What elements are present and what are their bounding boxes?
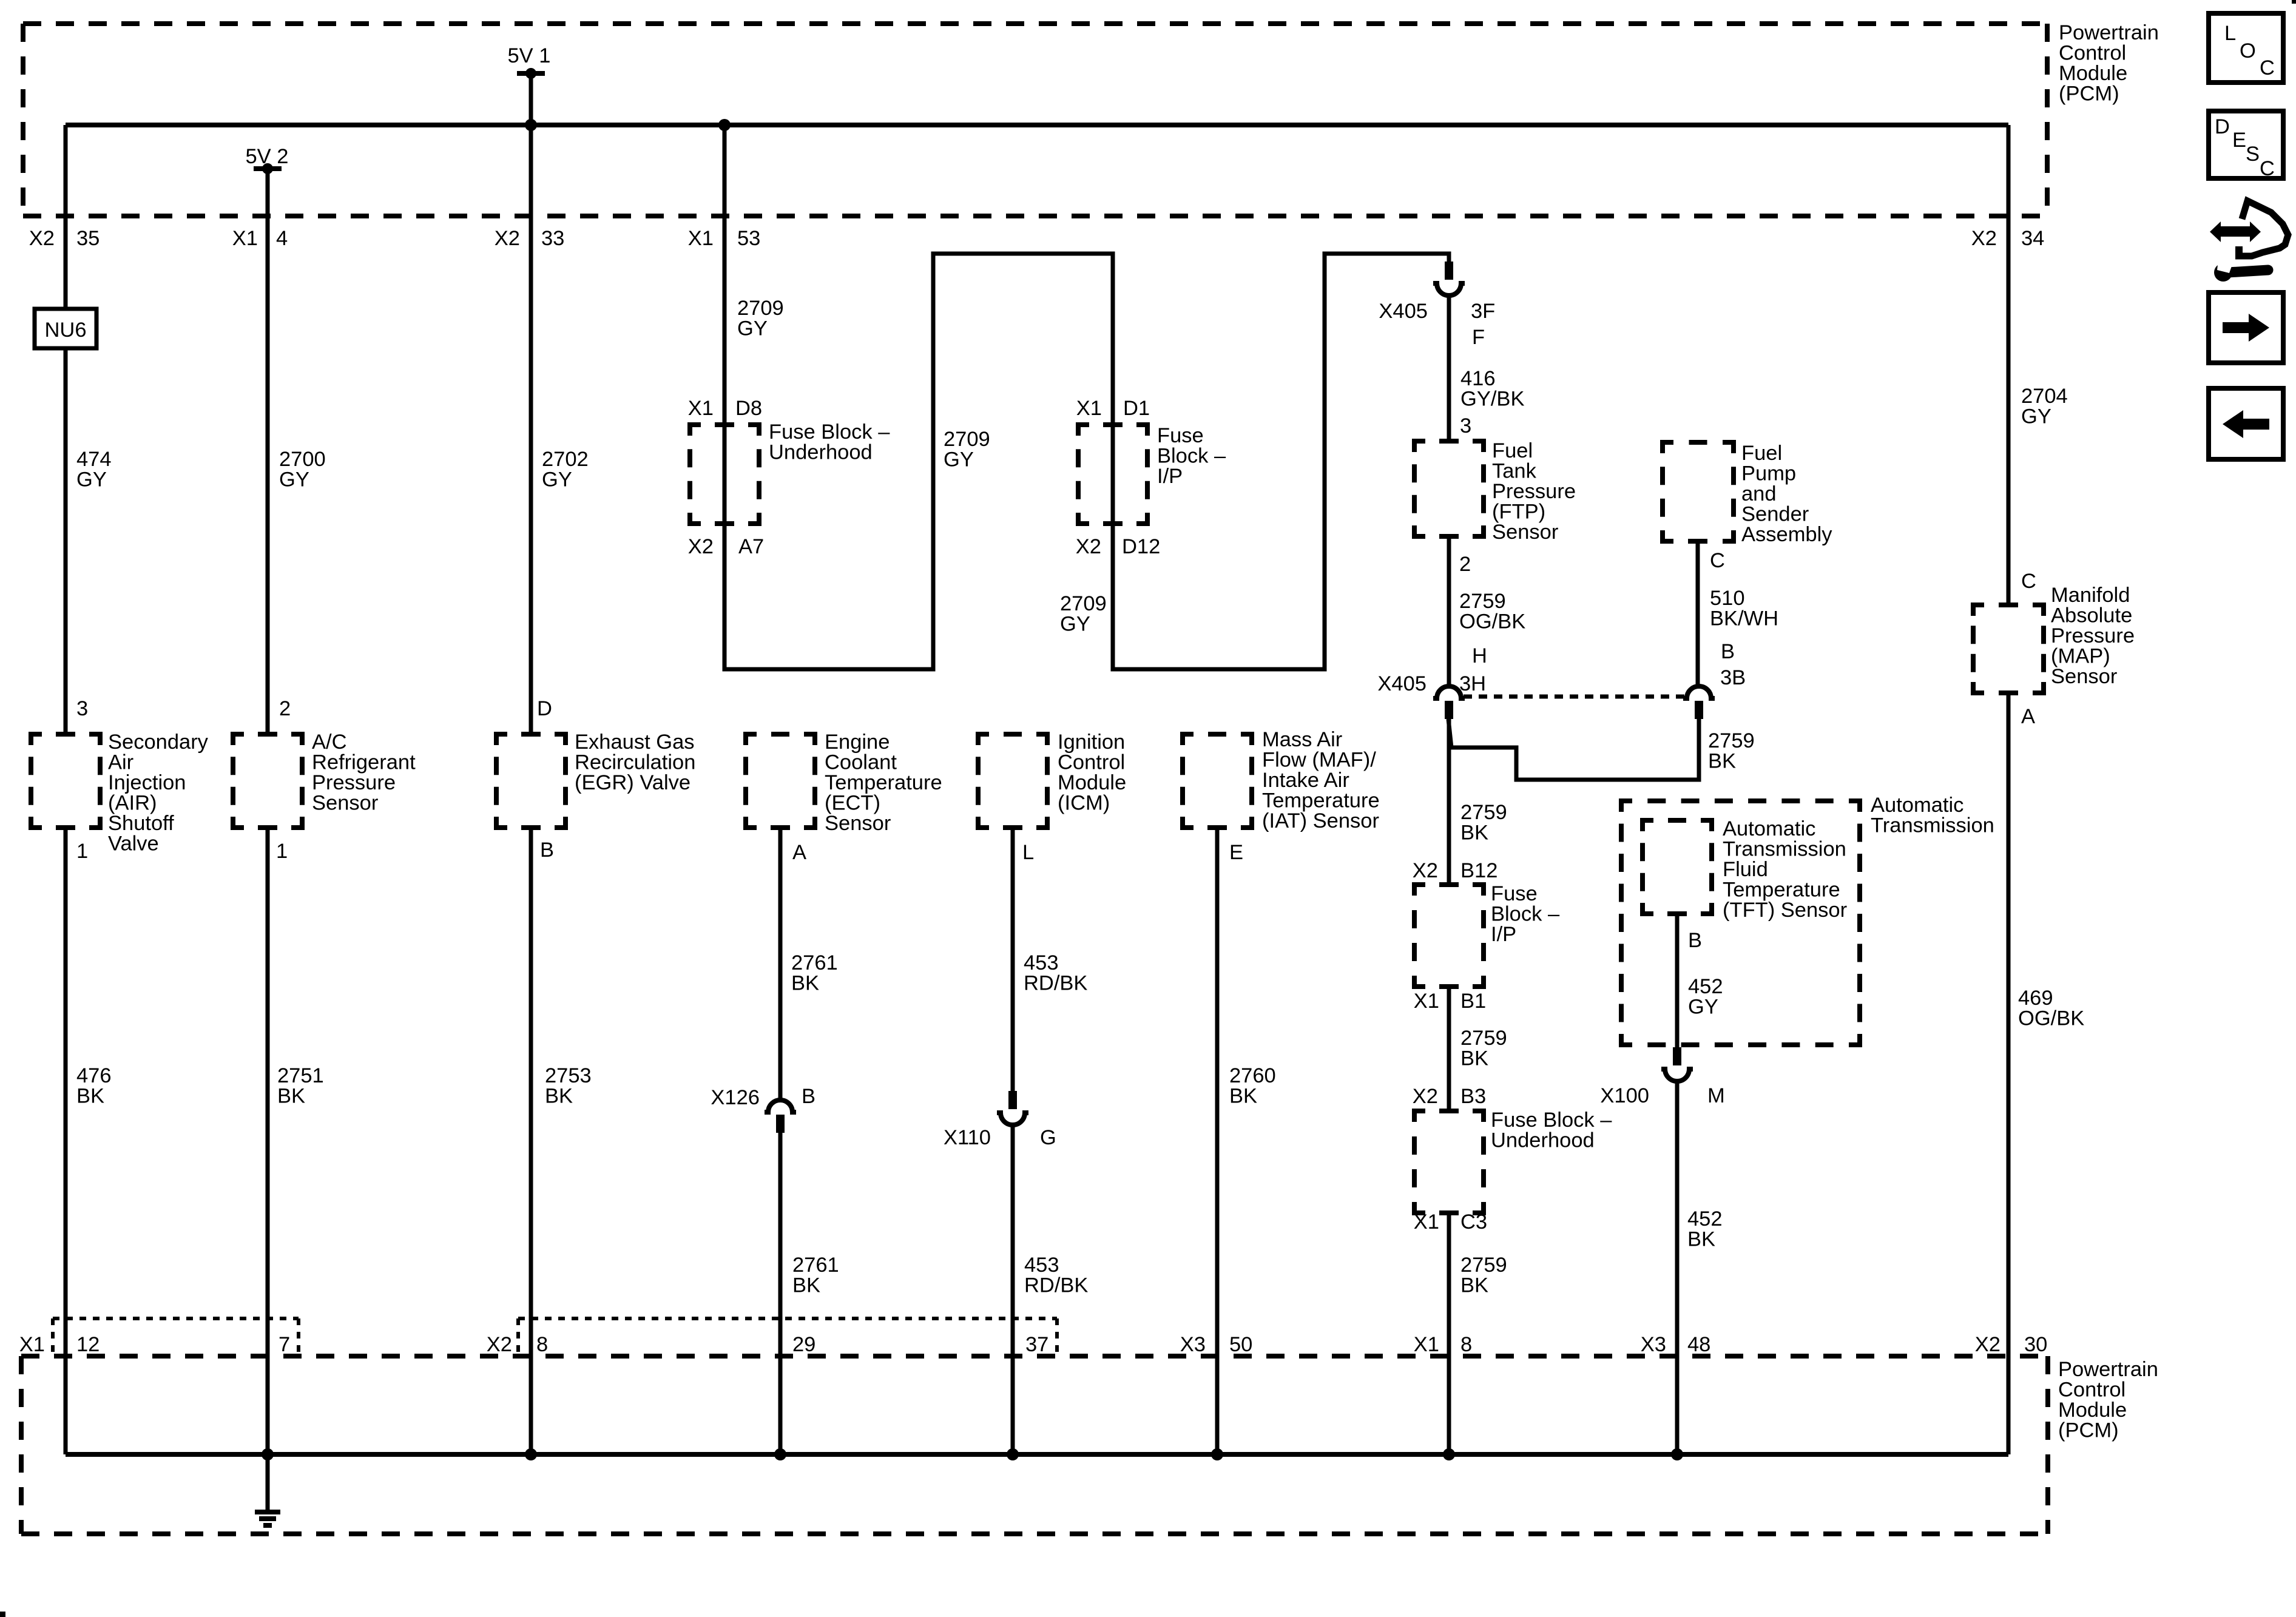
- svg-text:2753: 2753: [545, 1064, 592, 1087]
- value label: 2709 GY (below pin 53): [737, 297, 784, 340]
- svg-text:37: 37: [1025, 1333, 1048, 1356]
- label: Engine Coolant Temperature (ECT) Sensor: [825, 731, 942, 835]
- svg-text:Pressure: Pressure: [2051, 624, 2135, 647]
- svg-text:2709: 2709: [944, 428, 990, 451]
- svg-text:34: 34: [2021, 227, 2044, 250]
- svg-text:Pressure: Pressure: [312, 771, 396, 794]
- svg-text:Temperature: Temperature: [825, 771, 942, 794]
- svg-text:BK: BK: [1460, 1274, 1488, 1297]
- pin label: Fuse Block I/P X2-B12: [1413, 859, 1498, 882]
- pin label: PCM X1 pin 4: [232, 227, 288, 250]
- svg-text:469: 469: [2018, 987, 2053, 1010]
- svg-text:5V 1: 5V 1: [508, 44, 551, 67]
- wire 452 GY: TFT sensor to connector X100: [1675, 914, 1680, 1047]
- svg-text:Shutoff: Shutoff: [108, 812, 174, 835]
- label: Ignition Control Module (ICM): [1058, 731, 1126, 815]
- module box: Powertrain Control Module (PCM) bottom: [21, 1356, 2048, 1534]
- junction: 5V1 feed to bus: [525, 119, 537, 131]
- value label: 476 BK: [76, 1064, 112, 1108]
- svg-text:D12: D12: [1122, 535, 1160, 558]
- label: Exhaust Gas Recirculation (EGR) Valve: [575, 731, 695, 794]
- svg-text:D8: D8: [735, 397, 762, 420]
- svg-text:4: 4: [276, 227, 288, 250]
- label: Fuse Block - I/P (middle): [1491, 882, 1560, 946]
- svg-text:O: O: [2240, 39, 2256, 62]
- pin label: PCM X1 pin 8: [1414, 1333, 1472, 1356]
- component box: Fuse Block - I/P (middle): [1414, 885, 1484, 987]
- icon: arrow right box: [2209, 292, 2283, 363]
- svg-text:(ECT): (ECT): [825, 792, 880, 815]
- label: A/C Refrigerant Pressure Sensor: [312, 731, 416, 815]
- svg-text:B: B: [540, 839, 554, 862]
- svg-text:X110: X110: [944, 1126, 991, 1149]
- svg-text:Sensor: Sensor: [2051, 665, 2117, 688]
- label: Fuel Tank Pressure (FTP) Sensor: [1492, 439, 1576, 544]
- power symbol 5V 1: [517, 68, 545, 79]
- svg-text:Control: Control: [2058, 1379, 2125, 1402]
- svg-text:I/P: I/P: [1491, 923, 1516, 946]
- svg-text:1: 1: [276, 840, 288, 863]
- connector X405 shell (dashed link 3H to 3B): [1464, 695, 1684, 699]
- value label: 453 RD/BK (upper): [1024, 951, 1087, 995]
- svg-text:GY: GY: [2021, 405, 2051, 428]
- value label: 474 GY: [76, 448, 112, 491]
- wire 2759 BK: jumper X405-3H to X405-3B: [1448, 719, 1699, 780]
- svg-text:2759: 2759: [1459, 590, 1506, 613]
- svg-text:(ICM): (ICM): [1058, 792, 1110, 815]
- svg-text:35: 35: [76, 227, 100, 250]
- svg-text:Fuse Block –: Fuse Block –: [769, 420, 890, 444]
- svg-text:GY: GY: [542, 468, 572, 491]
- pin label: Fuse Block I/P X1-D1: [1076, 397, 1150, 420]
- svg-text:RD/BK: RD/BK: [1024, 1274, 1088, 1297]
- svg-text:X3: X3: [1180, 1333, 1206, 1356]
- svg-text:and: and: [1741, 482, 1777, 505]
- svg-text:RD/BK: RD/BK: [1024, 972, 1087, 995]
- pin label: PCM X2 pin 33: [495, 227, 565, 250]
- svg-text:30: 30: [2024, 1333, 2047, 1356]
- artifact: page mark bottom-left: [0, 1612, 5, 1617]
- svg-text:Module: Module: [2059, 62, 2127, 85]
- svg-text:Block –: Block –: [1157, 445, 1226, 468]
- svg-text:Fuse Block –: Fuse Block –: [1491, 1109, 1612, 1132]
- wire 2753 BK: EGR valve to ground bus: [529, 828, 533, 1454]
- svg-text:Control: Control: [2059, 42, 2126, 65]
- svg-text:1: 1: [76, 840, 88, 863]
- wire 2751 BK: A/C sensor to ground bus: [266, 828, 270, 1454]
- svg-text:B3: B3: [1460, 1085, 1486, 1108]
- svg-text:X2: X2: [487, 1333, 512, 1356]
- svg-text:BK: BK: [1229, 1085, 1257, 1108]
- svg-text:B: B: [802, 1085, 815, 1108]
- svg-text:2751: 2751: [277, 1064, 324, 1087]
- svg-text:X1: X1: [688, 227, 714, 250]
- svg-text:8: 8: [1460, 1333, 1472, 1356]
- svg-text:X1: X1: [232, 227, 258, 250]
- value label: 453 RD/BK (lower): [1024, 1254, 1088, 1297]
- svg-text:B: B: [1721, 640, 1735, 663]
- svg-text:Automatic: Automatic: [1871, 794, 1963, 817]
- junction: ECT return to bus: [774, 1448, 786, 1460]
- svg-text:X1: X1: [1414, 990, 1439, 1013]
- svg-text:(FTP): (FTP): [1492, 501, 1545, 524]
- svg-text:GY: GY: [76, 468, 107, 491]
- label: Automatic Transmission: [1871, 794, 1994, 837]
- svg-text:Underhood: Underhood: [1491, 1129, 1595, 1152]
- svg-text:GY: GY: [1060, 613, 1090, 636]
- svg-text:L: L: [2224, 22, 2236, 45]
- connector face box: PCM X1 (pins 12, 7): [53, 1318, 299, 1356]
- svg-text:C3: C3: [1460, 1210, 1487, 1234]
- wire 453 RD/BK: ICM to connector X110: [1011, 828, 1015, 1091]
- component box: Fuel Tank Pressure (FTP) Sensor: [1414, 441, 1484, 536]
- svg-text:2761: 2761: [791, 951, 838, 974]
- svg-text:X1: X1: [1076, 397, 1102, 420]
- value label: 416 GY/BK: [1460, 367, 1524, 411]
- svg-text:BK: BK: [1460, 822, 1488, 845]
- value label: 2702 GY: [542, 448, 589, 491]
- svg-text:510: 510: [1710, 587, 1745, 610]
- svg-text:GY: GY: [944, 448, 974, 471]
- svg-text:Intake Air: Intake Air: [1262, 769, 1349, 792]
- svg-text:Powertrain: Powertrain: [2058, 1358, 2158, 1381]
- svg-text:BK: BK: [545, 1085, 573, 1108]
- svg-text:Temperature: Temperature: [1723, 879, 1840, 902]
- pin label: PCM X2 pin 35: [29, 227, 100, 250]
- wire: PCM internal low reference bus (bottom): [66, 1452, 2008, 1457]
- svg-text:B: B: [1688, 929, 1702, 952]
- svg-text:C: C: [1710, 549, 1725, 572]
- svg-text:(AIR): (AIR): [108, 792, 157, 815]
- label: Mass Air Flow (MAF)/Intake Air Temperature (IAT) Sensor: [1262, 728, 1380, 832]
- svg-text:3H: 3H: [1459, 672, 1486, 695]
- svg-text:BK: BK: [277, 1085, 305, 1108]
- svg-text:A7: A7: [738, 535, 764, 558]
- svg-text:D: D: [537, 697, 552, 720]
- svg-text:X2: X2: [29, 227, 55, 250]
- svg-text:X405: X405: [1377, 672, 1427, 695]
- svg-text:Pump: Pump: [1741, 462, 1796, 485]
- svg-text:OG/BK: OG/BK: [1459, 610, 1525, 633]
- svg-text:Flow (MAF)/: Flow (MAF)/: [1262, 749, 1376, 772]
- svg-text:Control: Control: [1058, 751, 1125, 774]
- svg-text:E: E: [1229, 841, 1243, 864]
- label: X110 / terminal G: [944, 1126, 1056, 1149]
- svg-text:3: 3: [1460, 414, 1471, 437]
- svg-text:Tank: Tank: [1492, 460, 1537, 483]
- svg-text:Fuse: Fuse: [1491, 882, 1538, 905]
- svg-text:GY: GY: [1688, 996, 1718, 1019]
- wire: PCM internal 5V reference bus (top): [66, 123, 2008, 127]
- component box: Exhaust Gas Recirculation (EGR) Valve: [496, 734, 566, 828]
- svg-text:(MAP): (MAP): [2051, 645, 2110, 668]
- svg-text:53: 53: [737, 227, 760, 250]
- svg-text:452: 452: [1687, 1207, 1723, 1230]
- pin label: Fuse Block Underhood X1-C3: [1414, 1210, 1487, 1234]
- svg-text:Fuel: Fuel: [1741, 442, 1782, 465]
- wire 2759 BK: Fuse Block Underhood to PCM X1-8: [1447, 1213, 1451, 1454]
- value label: 2759 OG/BK: [1459, 590, 1525, 633]
- connector X110 (inline): [997, 1091, 1028, 1125]
- wire 474 GY: PCM X2-35 to AIR shutoff valve (with NU6 option): [64, 125, 68, 734]
- pin label: PCM X3 pin 48: [1641, 1333, 1711, 1356]
- svg-text:29: 29: [792, 1333, 815, 1356]
- svg-text:B1: B1: [1460, 990, 1486, 1013]
- label: X405 / terminal 3H: [1377, 672, 1486, 695]
- icon: diagnostic arrows and wrench: [2210, 201, 2288, 282]
- svg-text:Secondary: Secondary: [108, 731, 209, 754]
- svg-text:H: H: [1472, 644, 1487, 667]
- svg-text:Injection: Injection: [108, 771, 186, 794]
- wire 2761 BK: ECT sensor to connector X126: [778, 828, 783, 1099]
- svg-text:Pressure: Pressure: [1492, 480, 1576, 503]
- pin label: PCM X2 pin 30: [1975, 1333, 2048, 1356]
- component box: Fuse Block - I/P (top): [1078, 425, 1147, 524]
- svg-text:X405: X405: [1379, 300, 1428, 323]
- svg-text:Engine: Engine: [825, 731, 890, 754]
- svg-text:3: 3: [76, 697, 88, 720]
- value label: 2759 BK (jumper): [1708, 729, 1755, 773]
- junction: A/C return to bus: [262, 1448, 274, 1460]
- wire 2700 GY: 5V 2 to A/C refrigerant pressure sensor via PCM X1-4: [266, 169, 270, 734]
- value label: 2709 GY (below D12): [1060, 592, 1107, 636]
- svg-text:X2: X2: [495, 227, 520, 250]
- svg-text:Block –: Block –: [1491, 903, 1560, 926]
- svg-text:Assembly: Assembly: [1741, 523, 1832, 546]
- pin label: Fuse Block Underhood X1-D8: [688, 397, 762, 420]
- svg-text:Temperature: Temperature: [1262, 789, 1380, 812]
- svg-text:X2: X2: [1975, 1333, 2001, 1356]
- svg-text:2709: 2709: [737, 297, 784, 320]
- wire 452 BK: X100 to PCM X3-48: [1675, 1082, 1680, 1454]
- component box: Secondary Air Injection (AIR) Shutoff Valve: [31, 734, 100, 828]
- svg-text:2761: 2761: [792, 1254, 839, 1277]
- pin label: Fuse Block Underhood X2-B3: [1413, 1085, 1486, 1108]
- component box: Automatic Transmission Fluid Temperature (TFT) Sensor: [1643, 820, 1712, 914]
- svg-text:Fuse: Fuse: [1157, 424, 1204, 447]
- svg-text:E: E: [2232, 129, 2246, 152]
- wire 416 GY/BK: X405-3F to FTP sensor pin 3: [1447, 297, 1451, 441]
- svg-text:X3: X3: [1641, 1333, 1666, 1356]
- pin label: PCM X2 pin 34: [1971, 227, 2045, 250]
- junction: 2759 BK return to bus: [1443, 1448, 1455, 1460]
- svg-text:50: 50: [1229, 1333, 1252, 1356]
- label: Fuse Block - Underhood (bottom): [1491, 1109, 1612, 1152]
- label: Secondary Air Injection (AIR) Shutoff Valve: [108, 731, 209, 856]
- connector X405 terminal 3H (inline): [1433, 686, 1465, 719]
- wire 2704 GY: 5V bus to MAP sensor via PCM X2-34: [2007, 125, 2011, 605]
- component box: Fuse Block - Underhood (bottom): [1414, 1111, 1484, 1213]
- wire 2709 GY: PCM X1-53 through fuse blocks to connector X405-3F: [724, 125, 1449, 669]
- svg-text:(PCM): (PCM): [2059, 83, 2119, 106]
- pin label: PCM X2 pin 8: [487, 1333, 548, 1356]
- svg-text:BK: BK: [1687, 1228, 1715, 1251]
- svg-text:Automatic: Automatic: [1723, 817, 1815, 840]
- svg-text:X2: X2: [1413, 859, 1438, 882]
- svg-text:Valve: Valve: [108, 832, 159, 856]
- component box: Manifold Absolute Pressure (MAP) Sensor: [1973, 605, 2044, 693]
- pin label: PCM X1 pin 12: [19, 1333, 100, 1356]
- svg-text:Coolant: Coolant: [825, 751, 897, 774]
- svg-text:BK: BK: [1708, 750, 1736, 773]
- wire 2759 BK: Fuse Block I/P to Fuse Block Underhood: [1447, 987, 1451, 1111]
- splice option box NU6: [35, 309, 96, 348]
- svg-text:Sensor: Sensor: [1492, 521, 1558, 544]
- svg-text:BK: BK: [76, 1085, 104, 1108]
- component box: Fuel Pump and Sender Assembly: [1663, 442, 1734, 541]
- svg-text:G: G: [1040, 1126, 1056, 1149]
- wire 469 OG/BK: MAP sensor to PCM X2-30: [2007, 693, 2011, 1454]
- svg-text:2: 2: [279, 697, 291, 720]
- svg-text:Refrigerant: Refrigerant: [312, 751, 416, 774]
- value label: 469 OG/BK: [2018, 987, 2084, 1030]
- svg-text:2760: 2760: [1229, 1064, 1276, 1087]
- label: X126 / terminal B: [711, 1085, 815, 1109]
- svg-text:F: F: [1472, 326, 1485, 349]
- svg-text:474: 474: [76, 448, 112, 471]
- wire 2759 BK: X405-3H down to Fuse Block I/P X2-B12: [1447, 719, 1451, 885]
- svg-text:(TFT) Sensor: (TFT) Sensor: [1723, 899, 1847, 922]
- pin label: PCM X1 pin 53: [688, 227, 761, 250]
- svg-text:BK: BK: [792, 1274, 820, 1297]
- svg-text:2709: 2709: [1060, 592, 1107, 615]
- component box: Ignition Control Module (ICM): [978, 734, 1047, 828]
- svg-text:X2: X2: [688, 535, 714, 558]
- icon: LOC box: [2209, 13, 2283, 83]
- module box: Powertrain Control Module (PCM) top: [23, 24, 2047, 216]
- component box: Mass Air Flow (MAF)/Intake Air Temperature (IAT) Sensor: [1183, 734, 1252, 828]
- svg-text:GY: GY: [279, 468, 309, 491]
- label: Powertrain Control Module (PCM) top: [2059, 21, 2159, 106]
- svg-text:C: C: [2260, 157, 2275, 180]
- svg-text:BK: BK: [791, 972, 819, 995]
- svg-text:33: 33: [541, 227, 564, 250]
- value label: 452 BK: [1687, 1207, 1723, 1251]
- svg-text:Ignition: Ignition: [1058, 731, 1125, 754]
- svg-text:X1: X1: [1414, 1333, 1439, 1356]
- connector X405 terminal 3F (inline): [1433, 262, 1465, 295]
- svg-text:2704: 2704: [2021, 385, 2068, 408]
- svg-text:C: C: [2260, 56, 2275, 79]
- svg-text:BK/WH: BK/WH: [1710, 607, 1778, 630]
- value label: 2759 BK (B1 to B3): [1460, 1027, 1507, 1070]
- svg-text:(PCM): (PCM): [2058, 1419, 2119, 1442]
- connector X126 (inline): [765, 1100, 796, 1133]
- junction: bus to fuse block feed wire: [718, 119, 731, 131]
- svg-text:452: 452: [1688, 975, 1723, 998]
- value label: 2759 BK (above B12): [1460, 801, 1507, 845]
- svg-text:Underhood: Underhood: [769, 441, 873, 464]
- component box: A/C Refrigerant Pressure Sensor: [233, 734, 302, 828]
- svg-text:X2: X2: [1413, 1085, 1438, 1108]
- label: Fuse Block - Underhood (top): [769, 420, 890, 464]
- value label: 2760 BK: [1229, 1064, 1276, 1108]
- svg-text:X2: X2: [1971, 227, 1997, 250]
- junction: 452 BK return to bus: [1671, 1448, 1683, 1460]
- svg-text:(EGR) Valve: (EGR) Valve: [575, 771, 690, 794]
- svg-text:A/C: A/C: [312, 731, 347, 754]
- ground symbol (PCM internal reference): [255, 1454, 280, 1525]
- power symbol 5V 2: [254, 163, 282, 174]
- svg-text:3B: 3B: [1720, 666, 1746, 689]
- wire 476 BK: AIR valve to PCM X1-12: [64, 828, 68, 1454]
- svg-text:Powertrain: Powertrain: [2059, 21, 2159, 44]
- svg-text:3F: 3F: [1471, 300, 1495, 323]
- svg-text:2759: 2759: [1460, 1254, 1507, 1277]
- svg-text:Transmission: Transmission: [1723, 838, 1846, 861]
- connector X100 (inline, transmission case): [1661, 1047, 1693, 1081]
- svg-text:Exhaust Gas: Exhaust Gas: [575, 731, 695, 754]
- svg-text:Transmission: Transmission: [1871, 814, 1994, 837]
- label: Fuse Block - I/P (top): [1157, 424, 1226, 488]
- svg-text:BK: BK: [1460, 1047, 1488, 1070]
- svg-text:Recirculation: Recirculation: [575, 751, 695, 774]
- svg-text:Fuel: Fuel: [1492, 439, 1533, 462]
- svg-text:8: 8: [536, 1333, 548, 1356]
- label: Manifold Absolute Pressure (MAP) Sensor: [2051, 584, 2135, 688]
- label: X405 / terminal 3F / F: [1379, 300, 1495, 349]
- svg-text:X100: X100: [1600, 1084, 1649, 1107]
- svg-text:5V 2: 5V 2: [246, 145, 289, 168]
- wire 453 RD/BK: X110 to PCM pin 37: [1011, 1126, 1015, 1454]
- value label: 2761 BK (upper): [791, 951, 838, 995]
- label: X100 / terminal M: [1600, 1084, 1724, 1107]
- svg-text:453: 453: [1024, 1254, 1059, 1277]
- connector X405 terminal 3B (inline): [1683, 686, 1715, 719]
- svg-text:S: S: [2246, 143, 2260, 166]
- svg-text:A: A: [2021, 705, 2035, 728]
- wire 2760 BK: MAF/IAT sensor to PCM X3-50: [1215, 828, 1220, 1454]
- svg-text:416: 416: [1460, 367, 1496, 390]
- svg-text:7: 7: [279, 1333, 290, 1356]
- value label: 510 BK/WH: [1710, 587, 1778, 630]
- svg-text:D: D: [2215, 115, 2230, 138]
- wire 2702 GY: 5V 1 / bus to EGR valve via PCM X2-33: [529, 73, 533, 734]
- svg-text:2700: 2700: [279, 448, 326, 471]
- artifact: page mark top-right: [2292, 0, 2296, 4]
- svg-text:M: M: [1707, 1084, 1725, 1107]
- svg-text:OG/BK: OG/BK: [2018, 1007, 2084, 1030]
- svg-text:D1: D1: [1123, 397, 1150, 420]
- svg-text:Module: Module: [2058, 1399, 2127, 1422]
- svg-text:X1: X1: [688, 397, 714, 420]
- svg-text:453: 453: [1024, 951, 1059, 974]
- label: Powertrain Control Module (PCM) bottom: [2058, 1358, 2158, 1442]
- icon: DESC box: [2209, 111, 2283, 180]
- svg-text:Fluid: Fluid: [1723, 858, 1768, 881]
- svg-text:X1: X1: [19, 1333, 45, 1356]
- value label: 2709 GY (right of riser): [944, 428, 990, 471]
- svg-text:Manifold: Manifold: [2051, 584, 2130, 607]
- value label: 2753 BK: [545, 1064, 592, 1108]
- svg-text:X126: X126: [711, 1086, 760, 1109]
- svg-text:Absolute: Absolute: [2051, 604, 2132, 627]
- svg-text:Sensor: Sensor: [312, 792, 378, 815]
- svg-text:(IAT) Sensor: (IAT) Sensor: [1262, 809, 1379, 832]
- module box: Automatic Transmission (dashed outline): [1621, 801, 1860, 1045]
- svg-text:Mass Air: Mass Air: [1262, 728, 1342, 751]
- pin label: Fuse Block I/P X2-D12: [1076, 535, 1161, 558]
- pin label: PCM X3 pin 50: [1180, 1333, 1253, 1356]
- svg-text:2759: 2759: [1460, 1027, 1507, 1050]
- value label: 2751 BK: [277, 1064, 324, 1108]
- wire 2761 BK: X126 to PCM pin 29: [778, 1133, 783, 1454]
- value label: 452 GY: [1688, 975, 1723, 1019]
- svg-text:Module: Module: [1058, 771, 1126, 794]
- value label: 2700 GY: [279, 448, 326, 491]
- component box: Fuse Block - Underhood (top): [690, 425, 759, 524]
- icon: arrow left box: [2209, 388, 2283, 459]
